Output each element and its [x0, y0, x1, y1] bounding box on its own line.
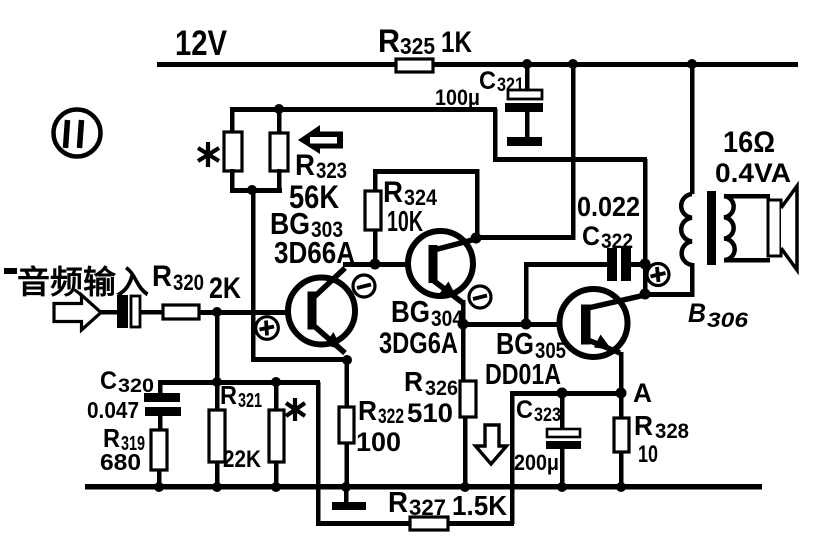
node: R321 ground [212, 482, 222, 492]
node A dot at R328 [616, 388, 627, 399]
svg-text:1K: 1K [441, 26, 472, 59]
svg-text:326: 326 [425, 377, 458, 400]
capacitor input coupling [117, 295, 140, 328]
node: R321 top [212, 377, 222, 387]
svg-text:12V: 12V [175, 24, 228, 63]
wire: emitter down to R322 [345, 360, 350, 407]
wire: y159 horizontal [493, 157, 647, 162]
svg-text:510: 510 [407, 398, 453, 428]
svg-text:R: R [220, 380, 237, 410]
svg-text:C: C [479, 67, 496, 95]
transistor BG303 [288, 268, 355, 353]
transistor BG305 [560, 289, 646, 357]
wire: R324 box right x477 [475, 169, 480, 237]
speaker horn [781, 186, 797, 270]
arrow icon pointing down [476, 425, 507, 464]
svg-text:325: 325 [400, 33, 435, 59]
svg-text:C: C [582, 221, 600, 251]
resistor R325 [378, 23, 472, 72]
resistor R320 [152, 260, 241, 319]
svg-text:B: B [688, 298, 706, 328]
transformer B306 secondary winding [724, 196, 735, 260]
asterisk for star resistor [286, 398, 305, 421]
wire: y360 to BG303 emitter [251, 357, 349, 362]
svg-text:BG: BG [496, 326, 534, 361]
resistor R319 [100, 423, 167, 487]
wire: C322 left lead y264 [524, 262, 608, 267]
svg-text:16Ω: 16Ω [723, 126, 775, 159]
polarity minus at BG303 collector [353, 275, 375, 297]
svg-text:306: 306 [707, 309, 748, 332]
wire: x573 from rail down [571, 64, 576, 240]
asterisk for bias resistor [198, 142, 219, 167]
node: BG304 collector junction [471, 233, 482, 244]
input label dash [4, 268, 17, 274]
wire: R324 box top y171 [373, 169, 479, 174]
transistor BG304 [408, 231, 476, 303]
12V supply rail [157, 62, 798, 67]
svg-text:A: A [633, 378, 652, 408]
polarity plus at BG303 base [256, 317, 279, 340]
capacitor C321 [435, 64, 543, 146]
wire: node A horizontal y393 [512, 391, 626, 396]
svg-text:328: 328 [655, 420, 689, 443]
node: C323 ground [557, 482, 567, 492]
node: C322 output junction [640, 259, 651, 270]
svg-text:22K: 22K [223, 446, 262, 473]
svg-text:R: R [295, 149, 315, 182]
svg-text:2K: 2K [209, 272, 241, 305]
node: input junction [212, 307, 222, 317]
svg-text:10K: 10K [387, 206, 423, 238]
wire: arrow to cap [100, 310, 117, 315]
ground rail [85, 484, 762, 490]
svg-text:R: R [383, 176, 403, 209]
svg-text:320: 320 [118, 376, 154, 397]
transformer B306 primary winding [681, 194, 692, 265]
svg-text:R: R [358, 395, 377, 426]
svg-text:R: R [388, 487, 408, 519]
svg-text:C: C [516, 396, 533, 424]
svg-text:100μ: 100μ [435, 85, 480, 110]
figure number 11 [54, 110, 101, 157]
node: R322 ground [341, 482, 351, 492]
svg-text:R: R [634, 410, 653, 441]
node: BG305 collector junction [640, 289, 651, 300]
wire: cap to R320 [140, 310, 164, 315]
wire: collector node to transformer [645, 292, 694, 297]
node: rail junction at transformer [687, 59, 697, 69]
wire: BG304 emitter down x465 [461, 300, 466, 382]
node: rail junction at C321 [522, 59, 532, 69]
svg-text:0.4VA: 0.4VA [715, 158, 791, 188]
wire: x526 up to C322 [524, 264, 529, 324]
resistor R323 56K [270, 104, 288, 191]
arrow icon pointing left [298, 125, 343, 154]
node: C322 tap on base wire [521, 319, 532, 330]
svg-text:3D66A: 3D66A [274, 235, 355, 270]
svg-text:10: 10 [638, 441, 658, 468]
node: BG305 base pickoff [458, 319, 469, 330]
node: star resistor ground [271, 482, 281, 492]
node: rail junction at x573 [568, 59, 578, 69]
speaker driver [768, 200, 781, 256]
svg-text:323: 323 [534, 405, 561, 426]
resistor R328 [614, 393, 689, 487]
wire: bias lower rail y382 [158, 380, 320, 385]
svg-text:320: 320 [173, 270, 204, 295]
polarity minus at BG304 [469, 286, 491, 308]
wire: R327 bottom loop y524 [316, 521, 514, 526]
node: bias bottom junction [247, 185, 257, 195]
wire: BG305 emitter down x621 [619, 352, 624, 395]
polarity plus at C322 [647, 264, 669, 286]
svg-text:R: R [378, 23, 400, 59]
svg-text:0.022: 0.022 [577, 191, 640, 222]
wire: BG305 base wire y324 [463, 322, 583, 327]
svg-text:100: 100 [356, 427, 401, 457]
resistor R322 [339, 395, 453, 487]
svg-text:321: 321 [238, 390, 262, 412]
resistor R327 [388, 487, 507, 530]
wire: x318 feedback down to R327 [316, 382, 321, 524]
resistor R326 [404, 366, 476, 487]
capacitor C323 [514, 393, 581, 487]
transformer B306 primary lead [690, 64, 695, 194]
ground symbol [332, 489, 366, 510]
node: R328 ground [616, 482, 626, 492]
capacitor C320 [87, 367, 181, 430]
wire: drop at x495 [493, 109, 498, 161]
node A dot at C323 [557, 388, 568, 399]
wire: x512 down through rail to R327 [510, 391, 515, 524]
svg-text:322: 322 [378, 405, 404, 428]
wire: secondary bottom to speaker [724, 258, 770, 263]
svg-text:0.047: 0.047 [87, 397, 139, 423]
svg-text:322: 322 [601, 230, 633, 253]
resistor star (unlabeled) [269, 382, 284, 487]
capacitor C322 [577, 191, 645, 281]
resistor R321 [209, 380, 262, 487]
svg-text:R: R [404, 366, 423, 397]
node: star resistor top [271, 377, 281, 387]
svg-text:C: C [100, 367, 117, 395]
transformer B306 primary bottom lead [690, 263, 695, 297]
resistor R324 [365, 171, 438, 264]
svg-text:200μ: 200μ [514, 450, 559, 475]
svg-text:R: R [152, 260, 172, 293]
wire: bias top rail y109 [230, 107, 497, 112]
svg-text:327: 327 [409, 495, 446, 520]
wire: secondary top to speaker [724, 194, 770, 199]
node: BG304 base junction [370, 259, 381, 270]
resistor R323a (starred bias resistor) [224, 107, 242, 191]
input arrow symbol [54, 295, 101, 330]
wire: x645 vertical down to C322 [643, 159, 648, 296]
svg-text:DD01A: DD01A [485, 359, 561, 391]
wire: x217 down to bias network [215, 312, 220, 382]
node: R326 ground [460, 482, 470, 492]
svg-text:BG: BG [391, 294, 430, 329]
wire: feedback drop x253 [251, 190, 256, 362]
svg-text:321: 321 [497, 75, 524, 96]
wire: BG303 collector to BG304 base [343, 262, 428, 267]
wire: bias bottom y190 [230, 188, 282, 193]
transformer B306 core [707, 191, 716, 265]
svg-text:1.5K: 1.5K [452, 490, 507, 521]
svg-text:3DG6A: 3DG6A [379, 327, 458, 360]
wire: R320 to BG303 base [199, 310, 308, 315]
node: R319 ground [154, 482, 164, 492]
node: BG303 emitter junction [342, 355, 352, 365]
wire: y238 to BG304 collector [474, 235, 574, 240]
svg-text:680: 680 [100, 449, 141, 475]
